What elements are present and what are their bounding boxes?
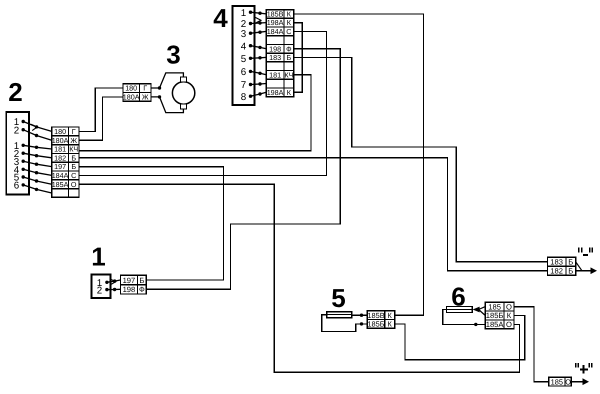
wire table of fuse 5 (367, 311, 394, 329)
svg-text:К: К (507, 311, 512, 320)
wire 180 Г (X2 row1 to motor table row1) (79, 88, 123, 131)
svg-text:180А: 180А (52, 136, 69, 145)
wire 180А Ж (X2 row2 to motor table row2) (79, 97, 123, 140)
connector X2 pin 3 (row 5) (14, 157, 52, 168)
svg-text:185: 185 (488, 302, 501, 311)
svg-text:181: 181 (54, 145, 66, 154)
connector X4 pin 5 (row 6) (241, 54, 267, 65)
connector X4 pin 7 (row 9) (241, 80, 267, 91)
svg-text:2: 2 (14, 125, 19, 136)
svg-text:КЧ: КЧ (284, 70, 293, 79)
connector X1 housing (91, 274, 110, 298)
wire table at "+" terminal (549, 377, 572, 386)
svg-text:184А: 184А (52, 171, 69, 180)
svg-text:4: 4 (241, 41, 247, 52)
svg-text:6: 6 (14, 181, 20, 192)
label 4 (213, 3, 228, 33)
svg-text:185Б: 185Б (367, 320, 384, 329)
svg-text:5: 5 (241, 54, 247, 65)
svg-text:180: 180 (54, 127, 66, 136)
wire 180А to motor lower brush (151, 95, 183, 112)
svg-text:185В: 185В (367, 311, 384, 320)
svg-text:К: К (287, 10, 292, 19)
label 2 (8, 77, 22, 107)
svg-text:183: 183 (269, 53, 281, 62)
svg-text:Б: Б (568, 257, 573, 266)
svg-text:2: 2 (97, 285, 102, 296)
svg-text:185А: 185А (52, 180, 69, 189)
svg-text:182: 182 (550, 267, 563, 276)
svg-text:1: 1 (91, 242, 105, 272)
wire 180 to motor upper brush (151, 73, 183, 90)
wire table of fuse 6 (485, 302, 514, 329)
svg-text:К: К (388, 320, 393, 329)
fuse 6 symbol (447, 307, 473, 313)
wire fuse5 right terminal to row1 (352, 314, 368, 317)
wire 181 КЧ (X2 row3 to X4 row8) (79, 75, 311, 151)
svg-text:185Б: 185Б (486, 311, 504, 320)
arrow to "+" battery terminal (571, 378, 589, 385)
wire 182 Б (X2 row4 to minus terminal) (79, 158, 547, 271)
connector X4 pin 6 (row 8) (241, 67, 267, 78)
svg-text:С: С (71, 171, 76, 180)
connector X2 housing (6, 112, 29, 195)
label 5 (331, 283, 345, 313)
wire 198 Ф (X4 row5 to X1 row2) (146, 49, 340, 289)
wire 184А С (X2 row6 to X4 row3) (79, 31, 326, 175)
connector X2 pin 5 (row 7) (14, 173, 52, 185)
svg-text:185: 185 (551, 377, 563, 386)
svg-text:197: 197 (54, 162, 66, 171)
svg-text:184А: 184А (267, 27, 284, 36)
wire 185 О (fuse6 row1 to plus terminal) (514, 307, 549, 382)
svg-text:180: 180 (125, 84, 137, 93)
wire 183 Б (X4 row6 to minus terminal) (294, 57, 548, 261)
svg-text:Ф: Ф (286, 44, 292, 53)
connector X2 pin 1 (row 3) (14, 141, 52, 152)
svg-text:К: К (287, 18, 292, 27)
wire table of connector X2 (52, 127, 79, 197)
connector X1 pin 2 (97, 285, 121, 296)
svg-text:Ф: Ф (139, 285, 145, 294)
wire fuse6 right terminal split to rows 1 and 2 (plug arrow) (473, 307, 486, 316)
connector X4 pin 8 (row 10) (241, 92, 267, 103)
connector X2 pin 1 (row 1) (14, 117, 52, 131)
label 3 (166, 40, 180, 70)
svg-text:197: 197 (123, 276, 136, 285)
wire table at "-" terminal (547, 257, 575, 275)
connector X4 pin 1 (row 1) (241, 8, 267, 19)
wire 197 Б (X2 row5 to X1 row1) (79, 167, 223, 280)
fuse 5 symbol (327, 312, 352, 318)
svg-text:Г: Г (72, 127, 76, 136)
svg-text:О: О (565, 377, 571, 386)
svg-text:К: К (287, 88, 292, 97)
label "+" (575, 363, 593, 374)
svg-text:3: 3 (241, 29, 247, 40)
svg-text:6: 6 (241, 67, 247, 78)
connector X2 pin 6 (row 8) (14, 181, 52, 194)
svg-text:182: 182 (54, 153, 66, 162)
svg-text:О: О (506, 320, 512, 329)
svg-text:198: 198 (269, 44, 281, 53)
svg-text:С: С (286, 27, 291, 36)
svg-text:198А: 198А (267, 88, 284, 97)
svg-text:Г: Г (143, 84, 147, 93)
connector X2 pin 2 (row 4) (14, 149, 52, 160)
connector X2 pin 4 (row 6) (14, 165, 52, 176)
wire 185В К (X4 row1 to fuse 5 row1) (294, 14, 424, 315)
svg-text:180А: 180А (123, 93, 140, 102)
svg-text:Б: Б (71, 153, 76, 162)
connector X2 pin 2 (row 2) (14, 125, 52, 140)
svg-text:181: 181 (269, 70, 281, 79)
svg-text:2: 2 (8, 77, 22, 107)
svg-text:8: 8 (241, 92, 247, 103)
svg-text:183: 183 (550, 257, 563, 266)
svg-text:5: 5 (331, 283, 345, 313)
svg-text:185А: 185А (486, 320, 505, 329)
svg-text:Ж: Ж (70, 136, 77, 145)
svg-text:К: К (388, 311, 393, 320)
svg-text:Б: Б (139, 276, 144, 285)
connector X1 pin 1 (97, 278, 121, 289)
svg-text:3: 3 (166, 40, 180, 70)
wire 198А К loop (X4 row2 to X4 row10) (294, 23, 302, 93)
svg-text:Б: Б (71, 162, 76, 171)
label 6 (451, 282, 465, 312)
svg-text:О: О (71, 180, 77, 189)
connector X4 pin 2 (row 2) (241, 17, 267, 30)
svg-text:О: О (506, 302, 512, 311)
svg-text:185В: 185В (267, 10, 284, 19)
svg-text:1: 1 (241, 8, 246, 19)
wire fuse6 left terminal loop to row3 (443, 310, 486, 327)
svg-text:4: 4 (213, 3, 228, 33)
wire table of connector X1 (120, 275, 146, 294)
connector X4 housing (233, 6, 255, 105)
svg-text:198А: 198А (267, 18, 284, 27)
motor 3 (electric motor symbol) (172, 77, 194, 109)
connector X4 pin 4 (row 5) (241, 41, 267, 52)
svg-text:7: 7 (241, 80, 246, 91)
wire table of connector X4 (266, 10, 294, 97)
wire 185А О (X2 row7 to fuse6 row3) (79, 184, 520, 372)
wire fuse5 left terminal loop to row2 (322, 315, 368, 332)
wire table of motor 3 (123, 84, 151, 102)
svg-text:198: 198 (123, 285, 136, 294)
svg-text:Ж: Ж (142, 93, 149, 102)
label "-" (578, 248, 593, 256)
svg-text:Б: Б (287, 53, 292, 62)
arrow to "-" battery terminal (576, 262, 597, 274)
connector X4 pin 3 (row 3) (241, 29, 267, 40)
svg-text:Б: Б (568, 267, 573, 276)
svg-text:КЧ: КЧ (69, 145, 78, 154)
label 1 (91, 242, 105, 272)
wire 185Б К (fuse5 row2 to fuse6 row2) (395, 316, 525, 360)
